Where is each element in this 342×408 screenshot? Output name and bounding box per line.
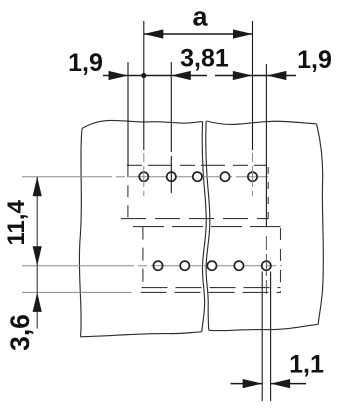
svg-text:3,81: 3,81 xyxy=(180,45,229,73)
break line left piece right edge xyxy=(202,122,206,332)
pad hole top 2 xyxy=(167,172,176,181)
dashed housing outline upper rect top edge xyxy=(127,164,266,166)
dashed housing outline upper rect right edge xyxy=(267,167,269,219)
arrow at housing edge pointing right xyxy=(109,71,129,80)
pad hole bottom 1 xyxy=(153,261,162,270)
extension centerline pin column 5 xyxy=(252,21,254,150)
svg-text:a: a xyxy=(192,2,208,32)
break line right piece left edge xyxy=(206,121,210,330)
pad hole top 5 xyxy=(248,172,257,181)
dimension 11,4 top arrow xyxy=(33,177,42,197)
svg-text:1,1: 1,1 xyxy=(289,351,324,379)
dashed housing outline upper rect left edge xyxy=(127,165,129,219)
extension line hole left tangent xyxy=(261,272,263,402)
svg-text:11,4: 11,4 xyxy=(3,199,30,245)
pad hole top 3 xyxy=(193,172,202,181)
dimension 1,1 left arrow xyxy=(243,379,263,388)
pad hole top 1 xyxy=(139,172,148,181)
extension centerline pin column 1 xyxy=(143,21,145,150)
connector outline left piece bottom edge xyxy=(81,332,202,337)
connector outline right piece bottom edge xyxy=(209,324,318,330)
dimension a left arrow xyxy=(144,29,164,38)
chain origin dot pin column 1 xyxy=(141,73,146,78)
dashed housing outline lower rect top edge xyxy=(133,226,281,228)
dashed housing outline upper rect bottom edge xyxy=(121,218,268,220)
dimension 1,1 line xyxy=(231,383,307,385)
reference line 3,6 xyxy=(22,291,132,293)
dashed housing outline lower rect right edge xyxy=(280,228,282,292)
dashed housing outline lower second bottom edge xyxy=(141,291,281,293)
arrow at pin column 5 pointing right xyxy=(233,71,253,80)
connector outline left piece top edge xyxy=(82,120,203,128)
connector outline left piece left edge xyxy=(79,129,82,337)
pad hole bottom 3 xyxy=(207,261,216,270)
svg-text:1,9: 1,9 xyxy=(297,46,332,74)
dimension a line xyxy=(144,33,253,35)
dimension a right arrow xyxy=(233,29,253,38)
dimension 11,4 bottom arrow xyxy=(33,246,42,266)
chain dimension line 1,9 / 3,81 / 1,9 xyxy=(103,75,296,77)
pad hole top 4 xyxy=(220,172,229,181)
dashed housing outline lower rect bottom edge xyxy=(142,287,281,289)
pad hole bottom 2 xyxy=(180,261,189,270)
arrow at bottom-row column pointing left xyxy=(267,71,287,80)
centerline bottom pin row xyxy=(22,265,282,267)
svg-text:1,9: 1,9 xyxy=(68,49,103,77)
dimension 3,6 arrow xyxy=(33,292,42,312)
dimension 1,1 right arrow xyxy=(271,379,291,388)
extension line bottom row last pin column xyxy=(265,64,267,227)
arrow at pin column 2 pointing left xyxy=(171,71,191,80)
centerline pin column 1 lower dash-dot xyxy=(143,153,145,196)
dashed housing outline lower rect left edge xyxy=(142,227,144,288)
extension centerline pin column 2 xyxy=(170,62,172,193)
dimension 11,4 line xyxy=(36,177,38,329)
connector outline right piece right edge xyxy=(317,124,324,324)
pad hole bottom 5 xyxy=(262,261,271,270)
extension line hole right tangent xyxy=(270,272,272,402)
connector outline right piece top edge xyxy=(207,121,317,124)
centerline pin column 5 lower dash-dot xyxy=(252,153,254,196)
centerline bottom last pin dash-dot xyxy=(265,236,267,294)
extension line housing edge x=128 xyxy=(127,62,129,166)
svg-text:3,6: 3,6 xyxy=(5,314,35,351)
centerline top pin row xyxy=(22,176,268,178)
pad hole bottom 4 xyxy=(234,261,243,270)
